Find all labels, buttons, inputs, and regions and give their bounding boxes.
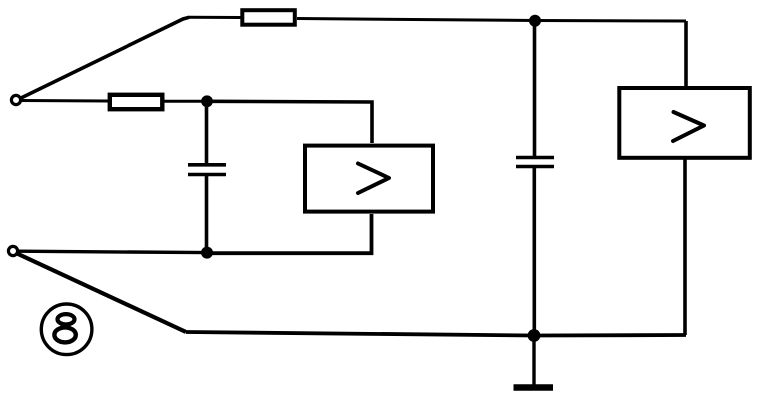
capacitor C2 lower stem [532,167,536,337]
capacitor C1 upper stem [205,101,209,164]
wire R2 to node [165,100,208,103]
figure label circle 8 [41,304,92,355]
ground bar [514,384,554,391]
wire input2 to node [18,251,207,252]
wire diagonal from input1 to top rail [21,17,189,98]
node junction top [529,15,541,27]
node junction bottom [528,329,541,342]
capacitor C2 upper stem [533,21,537,158]
wire diagonal from input2 to bottom rail [17,254,186,333]
wire bottom rail [186,332,686,336]
op-amp U1 [305,146,433,212]
wire top rail left segment [188,16,241,19]
wire U2 output down [683,157,687,335]
capacitor C1 lower stem [205,175,209,254]
wire node to amp U1 top [207,101,372,143]
terminal input 1 [11,95,20,104]
node junction mid-left [201,95,213,107]
resistor R2 [110,95,163,109]
wire U1 output down and left [207,214,372,253]
wire top rail right segment [297,19,686,22]
op-amp U2 symbol > [673,112,704,141]
op-amp U2 [619,88,750,158]
node junction row2 [201,247,213,259]
capacitor C2 plates [516,156,554,160]
capacitor C1 plates [188,163,226,167]
wire down into amp U2 [684,21,688,89]
wire input1 to R2 [20,99,108,103]
terminal input 2 [8,246,17,255]
resistor R1 [242,10,294,25]
op-amp U1 symbol > [358,164,389,194]
ground stem [532,336,535,385]
